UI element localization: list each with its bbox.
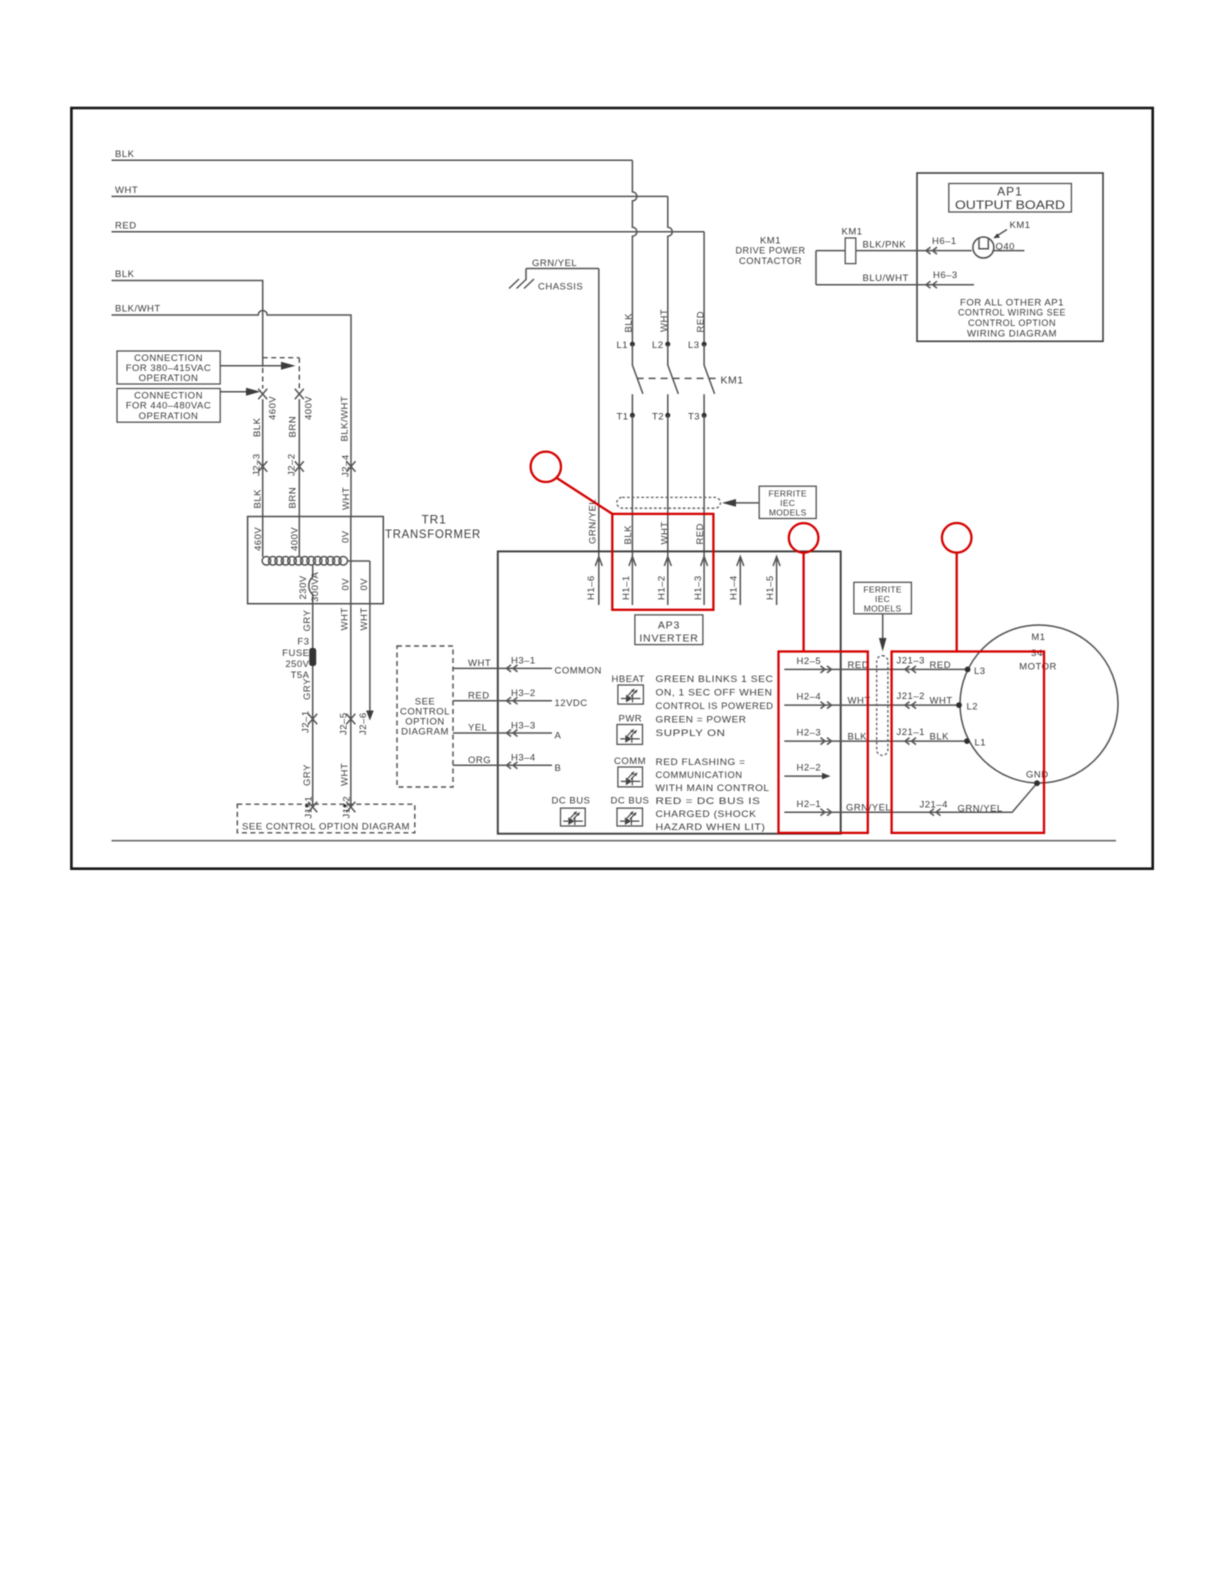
svg-text:AP3: AP3 [658, 620, 680, 632]
svg-text:BLK: BLK [848, 732, 868, 743]
node L1 [617, 340, 635, 351]
text KM1 drive power contactor [736, 236, 806, 267]
ferrite core dashed (input) [617, 497, 721, 508]
svg-text:GRN/YEL: GRN/YEL [532, 258, 577, 269]
svg-text:0V: 0V [359, 578, 370, 591]
svg-text:TR1: TR1 [422, 513, 447, 527]
connector H1-3 arrow [693, 557, 708, 601]
wire GRN/YEL chassis [526, 258, 599, 293]
svg-text:H1–1: H1–1 [621, 575, 632, 600]
svg-text:L2: L2 [967, 702, 979, 713]
svg-text:L2: L2 [652, 340, 664, 351]
svg-text:KM1: KM1 [1010, 220, 1031, 231]
svg-text:H1–3: H1–3 [693, 575, 704, 600]
dashed box see control option (bottom) [237, 804, 414, 833]
callout rect 2 [779, 652, 868, 833]
label WHT vertical line C [341, 487, 352, 510]
connector J2-3 [252, 453, 268, 476]
svg-text:H2–3: H2–3 [797, 728, 822, 739]
svg-text:DC BUS: DC BUS [611, 796, 650, 807]
svg-text:BLK: BLK [252, 417, 263, 437]
bottom rail line [112, 840, 1117, 842]
svg-text:T2: T2 [652, 411, 664, 422]
svg-text:L1: L1 [975, 738, 987, 749]
wire GRY from transformer [302, 604, 313, 648]
node label RED vertical L3 [696, 311, 707, 333]
label BLK vertical line A [252, 417, 263, 437]
svg-text:RED = DC BUS IS: RED = DC BUS IS [656, 796, 761, 807]
label 0V below coil left [341, 578, 352, 591]
wire H2-4 to motor L2 [784, 691, 959, 709]
svg-text:MODELS: MODELS [864, 604, 902, 614]
text PWR description [656, 715, 747, 740]
transformer center tap 230V [309, 565, 313, 604]
wire 400V to transformer [298, 399, 300, 516]
wire H3-3 A [453, 720, 562, 741]
svg-text:300VA: 300VA [310, 572, 321, 602]
label BRN vertical line B [288, 416, 299, 438]
ferrite label box (input) [722, 486, 816, 518]
wire H2-5 to motor L3 [784, 655, 967, 673]
connector H1-4 arrow stub [729, 557, 744, 606]
svg-text:RED: RED [115, 221, 137, 232]
node label WHT vertical L2 [659, 309, 670, 332]
svg-text:WHT: WHT [659, 309, 670, 332]
callout rect 1 [612, 514, 713, 610]
svg-text:TRANSFORMER: TRANSFORMER [385, 527, 481, 541]
svg-text:YEL: YEL [468, 723, 487, 734]
svg-text:L3: L3 [974, 666, 986, 677]
svg-text:GRN/YEL: GRN/YEL [958, 804, 1003, 815]
svg-text:RED: RED [848, 660, 870, 671]
wire dashed 380V alternate path [263, 358, 300, 389]
svg-text:A: A [555, 731, 562, 742]
connector Q40 circle [973, 220, 1031, 258]
svg-text:MOTOR: MOTOR [1019, 662, 1057, 673]
svg-text:WHT: WHT [660, 521, 671, 544]
svg-text:COMMON: COMMON [555, 666, 602, 677]
svg-text:OPERATION: OPERATION [139, 373, 199, 384]
svg-text:BLK/WHT: BLK/WHT [115, 304, 161, 315]
svg-text:WIRING DIAGRAM: WIRING DIAGRAM [967, 328, 1057, 339]
arrow 380-415 connection [220, 362, 295, 370]
wire RED top feed [112, 221, 705, 232]
svg-text:BLK: BLK [115, 149, 135, 160]
svg-text:M1: M1 [1031, 632, 1045, 643]
svg-text:H1–6: H1–6 [586, 575, 597, 600]
svg-text:T1: T1 [617, 411, 629, 422]
connector J2-2 [287, 453, 304, 476]
wire BLK/WHT primary feed [112, 304, 352, 517]
svg-text:RED: RED [468, 690, 490, 701]
svg-text:MODELS: MODELS [769, 508, 807, 518]
svg-text:GREEN = POWER: GREEN = POWER [656, 715, 747, 726]
svg-text:RED FLASHING =: RED FLASHING = [656, 757, 746, 768]
connector J1-1 [304, 796, 318, 819]
LED COMM [614, 756, 646, 787]
border frame [71, 108, 1152, 869]
transformer winding coil [262, 557, 347, 566]
svg-text:H3–2: H3–2 [511, 688, 536, 699]
svg-text:DIAGRAM: DIAGRAM [401, 727, 449, 738]
connection box 440-480VAC [117, 389, 220, 423]
contactor KM1 pole 2 [668, 344, 679, 415]
connection box 380-415VAC [117, 351, 220, 384]
label WHT vertical below ferrite [660, 521, 671, 544]
svg-text:WHT: WHT [930, 696, 953, 707]
svg-text:ON, 1 SEC OFF WHEN: ON, 1 SEC OFF WHEN [656, 688, 773, 699]
label 460V inside transformer [253, 527, 264, 551]
connector J1-2 [342, 796, 356, 819]
svg-text:WHT: WHT [340, 607, 351, 630]
transformer primary lead 460V [262, 517, 264, 558]
label BRN vertical lower line B [288, 487, 299, 509]
wire T2 to inverter H1-2 [667, 415, 669, 605]
svg-text:H1–2: H1–2 [657, 575, 668, 600]
svg-text:COMM: COMM [614, 756, 646, 767]
svg-text:H3–1: H3–1 [511, 656, 536, 667]
node motor GND [1026, 770, 1049, 787]
svg-text:230V: 230V [298, 575, 309, 599]
svg-text:SEE CONTROL OPTION DIAGRAM: SEE CONTROL OPTION DIAGRAM [242, 822, 410, 833]
connector X 460V tap [258, 389, 267, 399]
label 0V below coil right [359, 578, 370, 591]
svg-text:H3–3: H3–3 [511, 720, 536, 731]
svg-text:CHASSIS: CHASSIS [538, 282, 583, 293]
svg-text:400V: 400V [304, 396, 315, 420]
svg-text:J21–3: J21–3 [897, 655, 925, 666]
label 460V vertical [268, 396, 279, 420]
svg-text:SUPPLY ON: SUPPLY ON [656, 728, 726, 739]
ground chassis symbol [509, 279, 534, 289]
svg-text:12VDC: 12VDC [555, 698, 588, 709]
callout circle 1 [531, 452, 613, 514]
svg-text:CHARGED (SHOCK: CHARGED (SHOCK [656, 809, 757, 820]
label GRY lower [302, 764, 313, 786]
svg-text:250V: 250V [285, 659, 309, 670]
connector X 400V tap [295, 389, 304, 399]
connector H1-6 arrow [586, 557, 602, 601]
svg-text:GRN/YEL: GRN/YEL [588, 499, 599, 544]
svg-text:FERRITE: FERRITE [768, 488, 806, 498]
svg-text:GRY: GRY [302, 609, 313, 631]
ferrite label box (output) [854, 582, 912, 651]
callout circle 3 [942, 523, 972, 652]
wire BLK/PNK H6-1 [816, 236, 972, 254]
LED HBEAT [612, 674, 645, 704]
transformer TR1 box [248, 513, 481, 604]
label box AP3 INVERTER [635, 615, 703, 645]
wire GRY below fuse [302, 666, 313, 806]
svg-text:BLK: BLK [624, 313, 635, 333]
svg-text:IEC: IEC [780, 498, 795, 508]
node T3 [688, 411, 707, 422]
svg-text:H3–4: H3–4 [511, 753, 536, 764]
svg-text:OPERATION: OPERATION [139, 411, 199, 422]
AP1 output board box [917, 173, 1103, 341]
wire WHT J2-5 [340, 604, 351, 806]
svg-text:RED: RED [930, 660, 952, 671]
LED PWR [617, 714, 643, 745]
label 300VA [310, 572, 321, 602]
label 400V inside transformer [290, 527, 301, 551]
svg-text:FERRITE: FERRITE [863, 584, 901, 594]
svg-text:BLK: BLK [623, 525, 634, 545]
transformer primary lead 400V [298, 517, 300, 558]
svg-text:460V: 460V [253, 527, 264, 551]
svg-text:COMMUNICATION: COMMUNICATION [656, 770, 743, 781]
contactor KM1 linkage dashed [637, 375, 744, 387]
svg-text:FUSE: FUSE [282, 648, 309, 659]
LED DC BUS right [611, 796, 650, 827]
label 230V [298, 575, 309, 599]
label 0V top inside transformer [341, 530, 352, 543]
node L3 [688, 340, 707, 351]
callout circle 2 [789, 523, 819, 651]
svg-text:HAZARD WHEN LIT): HAZARD WHEN LIT) [656, 822, 766, 833]
svg-text:BLK/PNK: BLK/PNK [863, 240, 907, 251]
svg-text:WHT: WHT [340, 763, 351, 786]
svg-text:DC BUS: DC BUS [552, 796, 591, 807]
callout rect 3 [892, 652, 1044, 833]
label GRN/YEL vertical [588, 499, 599, 544]
node T2 [652, 411, 670, 422]
svg-text:H2–1: H2–1 [797, 799, 822, 810]
svg-text:INVERTER: INVERTER [639, 633, 698, 645]
wire BLK top feed [112, 149, 633, 160]
svg-text:RED: RED [695, 523, 706, 545]
svg-text:AP1: AP1 [997, 185, 1023, 199]
node motor L1 [964, 738, 986, 749]
label 400V vertical [304, 396, 315, 420]
wire from Q40 [992, 250, 1024, 252]
svg-text:H2–4: H2–4 [797, 692, 822, 703]
wire H3-1 COMMON [453, 656, 602, 677]
label BLK vertical lower line A [253, 489, 264, 509]
svg-text:IEC: IEC [875, 594, 890, 604]
svg-text:F3: F3 [297, 637, 309, 648]
label WHT lower [340, 763, 351, 786]
svg-text:BRN: BRN [288, 487, 299, 509]
svg-text:OUTPUT BOARD: OUTPUT BOARD [955, 198, 1065, 212]
wire L1 vertical drop [632, 160, 637, 341]
svg-text:0V: 0V [341, 530, 352, 543]
connector H1-5 arrow stub [765, 557, 780, 606]
wire WHT top feed [112, 185, 668, 196]
wire BLU/WHT H6-3 [816, 251, 974, 289]
connector J2-4 [341, 454, 356, 477]
transformer lead 0V [350, 517, 352, 604]
wire H2-1 GRN/YEL to motor GND [784, 783, 1037, 816]
node motor L2 [956, 702, 978, 713]
contactor KM1 pole 1 [632, 344, 643, 415]
svg-text:H6–1: H6–1 [932, 236, 957, 247]
svg-text:KM1: KM1 [721, 375, 744, 387]
svg-text:BLK/WHT: BLK/WHT [340, 396, 351, 442]
svg-text:J2–2: J2–2 [287, 453, 298, 476]
svg-text:CONTROL IS POWERED: CONTROL IS POWERED [656, 701, 774, 712]
text for all other AP1 [958, 297, 1066, 339]
svg-text:BLK: BLK [930, 732, 950, 743]
svg-text:KM1: KM1 [842, 227, 863, 238]
svg-text:BLK: BLK [115, 269, 135, 280]
label BLK/WHT vertical [340, 396, 351, 442]
motor M1 circle [960, 625, 1118, 783]
label BLK vertical below ferrite [623, 525, 634, 545]
svg-text:H2–5: H2–5 [797, 656, 822, 667]
svg-text:T3: T3 [688, 411, 700, 422]
ferrite core dashed (output) [877, 656, 888, 756]
wire BLK primary feed [112, 269, 263, 367]
svg-text:WHT: WHT [468, 658, 491, 669]
node T1 [617, 411, 635, 422]
svg-text:J21–1: J21–1 [897, 727, 925, 738]
svg-text:RED: RED [696, 311, 707, 333]
svg-text:WHT: WHT [341, 487, 352, 510]
svg-text:GND: GND [1026, 770, 1049, 781]
arrow 440-480 connection [220, 388, 260, 396]
wire H3-4 B [453, 753, 561, 774]
connector H1-2 arrow [657, 557, 672, 601]
AP1 title box [949, 184, 1072, 213]
svg-text:CONTACTOR: CONTACTOR [739, 256, 802, 267]
svg-text:WHT: WHT [359, 607, 370, 630]
svg-text:L3: L3 [688, 340, 700, 351]
wire T3 to inverter H1-3 [703, 415, 705, 605]
svg-text:GRY: GRY [302, 764, 313, 786]
svg-text:ORG: ORG [468, 755, 491, 766]
wire GRN/YEL to inverter H1-6 [598, 269, 600, 606]
svg-text:WHT: WHT [115, 185, 138, 196]
svg-text:J21–2: J21–2 [897, 691, 925, 702]
connector J2-5 [339, 712, 356, 735]
text COMM description [656, 757, 770, 794]
node motor L3 [965, 666, 986, 677]
svg-text:H1–5: H1–5 [765, 575, 776, 600]
connector J2-1 [301, 710, 318, 733]
wire 460V to transformer [262, 399, 264, 516]
svg-text:PWR: PWR [619, 714, 643, 725]
label RED vertical below ferrite [695, 523, 706, 545]
svg-text:H6–3: H6–3 [933, 270, 958, 281]
text HBEAT description [656, 674, 774, 712]
wire WHT J2-6 with arrow [358, 604, 374, 735]
svg-text:GREEN BLINKS 1 SEC: GREEN BLINKS 1 SEC [656, 674, 774, 685]
fuse F3 [282, 637, 316, 682]
svg-text:400V: 400V [290, 527, 301, 551]
coil KM1 [842, 227, 863, 264]
svg-text:GRY: GRY [302, 678, 313, 700]
wire L3 vertical drop [703, 232, 705, 342]
node L2 [652, 340, 670, 351]
transformer secondary jog to 0V right [348, 561, 370, 604]
svg-text:0V: 0V [341, 578, 352, 591]
svg-text:BLK: BLK [253, 489, 264, 509]
connector H1-1 arrow [621, 557, 636, 601]
contactor KM1 pole 3 [704, 344, 715, 415]
wire H2-2 stub [784, 763, 830, 780]
svg-text:HBEAT: HBEAT [612, 674, 645, 685]
svg-text:H1–4: H1–4 [729, 575, 740, 600]
wire T1 to inverter H1-1 [631, 415, 633, 605]
text DC BUS description [656, 796, 766, 833]
dashed box see control option (right) [397, 646, 453, 787]
svg-text:H2–2: H2–2 [797, 763, 822, 774]
svg-text:B: B [555, 763, 562, 774]
wire H3-2 12VDC [453, 688, 588, 709]
svg-text:BLU/WHT: BLU/WHT [863, 273, 909, 284]
wire H2-3 to motor L1 [784, 727, 967, 745]
inverter AP3 box [498, 551, 841, 833]
svg-text:WITH MAIN CONTROL: WITH MAIN CONTROL [656, 783, 770, 794]
LED DC BUS left [552, 796, 591, 827]
svg-text:J2–6: J2–6 [358, 712, 369, 735]
svg-text:460V: 460V [268, 396, 279, 420]
node label BLK vertical L1 [624, 313, 635, 333]
wire L2 vertical drop [668, 196, 673, 341]
svg-text:BRN: BRN [288, 416, 299, 438]
svg-text:L1: L1 [617, 340, 629, 351]
